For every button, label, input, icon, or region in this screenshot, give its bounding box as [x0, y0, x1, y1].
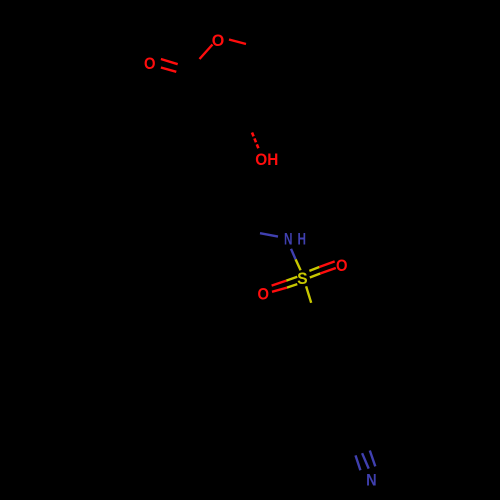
bond N-S, nitrogen half: [291, 249, 296, 260]
bond C-N(H), nitrogen half: [260, 233, 278, 236]
bond O(ester)-C(carbonyl), oxygen half: [200, 45, 213, 60]
bond O(ester)-CH3, oxygen half: [229, 40, 246, 45]
svg-text:O: O: [257, 285, 269, 303]
svg-text:O: O: [144, 55, 156, 73]
svg-text:N: N: [284, 231, 293, 249]
S=O left double bond, sulfur halves: [286, 277, 297, 281]
svg-text:N: N: [366, 472, 377, 490]
svg-text:O: O: [212, 32, 225, 50]
bond S-C(aryl), sulfur half: [306, 286, 311, 303]
double bond C=O carbonyl, oxygen halves: [161, 59, 178, 64]
S=O right double bond, oxygen halves: [319, 261, 334, 267]
S=O left double bond, oxygen halves: [272, 281, 287, 286]
svg-text:OH: OH: [255, 151, 278, 169]
wire C(methyl ester CH3) half-bond: [246, 44, 263, 49]
wire C(carbonyl) half-bonds: [176, 59, 207, 113]
wire nitrile carbon half: [333, 388, 362, 453]
triple bond C#N, nitrogen halves (three parallel lines): [356, 455, 361, 470]
invisible carbon skeleton (carbon atoms drawn black on black): [176, 44, 362, 453]
svg-text:S: S: [297, 270, 308, 288]
S=O right double bond, sulfur halves: [309, 267, 319, 271]
wire left chain carbons: [207, 113, 260, 233]
wire benzene ring below sulfonyl: [287, 303, 362, 388]
bond N-S, sulfur half: [296, 259, 301, 270]
dashed stereo bond C-OH, oxygen half: [252, 133, 259, 149]
svg-text:H: H: [297, 231, 306, 249]
svg-text:O: O: [336, 257, 348, 275]
